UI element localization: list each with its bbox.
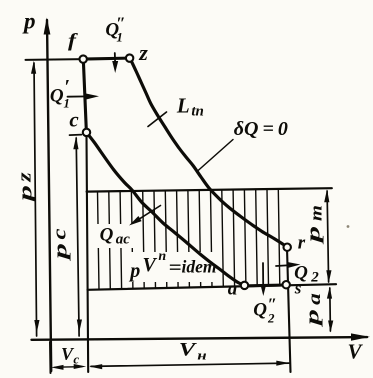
V_H dimension line	[91, 363, 289, 366]
label a	[228, 280, 238, 299]
label Q1-prime	[50, 86, 64, 105]
isobar segment a-s	[245, 283, 287, 287]
leader line for delta-Q = 0 label	[197, 140, 233, 172]
label p_c (rotated)	[51, 243, 70, 259]
white gap behind Q_ac label	[96, 224, 134, 248]
white gap behind pV^n=idem label	[125, 252, 218, 282]
label Q_2	[294, 264, 308, 283]
state point z	[126, 54, 133, 61]
label p (axis)	[24, 9, 36, 32]
p_c dimension line	[76, 138, 79, 336]
p_m dimension line	[327, 191, 329, 282]
isochore r-s and extension below axis for V_H dimension	[287, 248, 291, 372]
state point c	[83, 129, 90, 136]
label c	[69, 109, 78, 130]
V_c extension line left (below axis)	[49, 342, 52, 373]
label V_H	[178, 340, 194, 359]
label pV^n=idem	[130, 261, 140, 281]
label s	[295, 280, 302, 297]
isochore extension below c down to V_c dimension (hatch left edge)	[87, 136, 89, 372]
state point f	[80, 55, 87, 62]
V axis	[32, 337, 368, 340]
state point s	[283, 281, 290, 288]
p_a dimension line	[329, 288, 332, 331]
state point a	[241, 282, 248, 289]
Q1-second heat arrow (down, through f-z line)	[114, 53, 116, 62]
label L_tn	[177, 95, 190, 116]
label p_a (rotated)	[304, 309, 323, 325]
adiabatic expansion curve z-r (delta Q = 0)	[130, 58, 287, 247]
label p_m (rotated)	[305, 226, 324, 242]
label r	[298, 234, 305, 253]
polytropic compression curve c-a (pV^n = idem)	[87, 133, 245, 286]
p_z dimension line	[34, 63, 37, 336]
Q1-prime heat arrow (right, through f-c line)	[68, 95, 89, 97]
tick mark for L_tn label	[148, 112, 167, 127]
isochore f-c	[83, 59, 86, 132]
label p_z (rotated)	[16, 185, 35, 201]
isobar f-z (top line of cycle)	[83, 58, 129, 59]
Q_2 arrow (right, through r-s line)	[276, 264, 291, 267]
small scan speck	[347, 225, 350, 228]
label Q1-second	[105, 21, 119, 40]
tick at c level for p_c dimension	[70, 134, 82, 137]
label Q2-second	[253, 301, 267, 320]
label V_c	[61, 345, 73, 363]
hatch area bottom boundary / p_a level line	[88, 284, 337, 290]
label Q_ac	[100, 225, 114, 244]
extension of f-z isobar to left for p_z dimension	[26, 58, 84, 61]
label f	[68, 32, 76, 51]
Q2-second heat arrow (down, through a-s line)	[262, 263, 264, 285]
hatch area top boundary (p_m level line)	[87, 188, 332, 191]
hatching of heat area	[98, 189, 280, 290]
label V (axis)	[347, 341, 361, 362]
label deltaQ=0	[234, 119, 288, 139]
label z	[139, 42, 148, 64]
state point r	[284, 244, 291, 251]
Q_ac arrow (down-left from compression curve)	[137, 206, 161, 221]
p axis	[47, 20, 51, 371]
V_c dimension double arrow	[55, 366, 82, 369]
